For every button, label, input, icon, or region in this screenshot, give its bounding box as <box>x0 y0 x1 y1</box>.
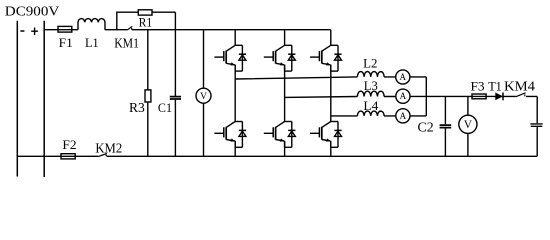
svg-text:R3: R3 <box>129 100 145 115</box>
wire voltmeter V1 branch bottom <box>203 103 205 156</box>
svg-text:C1: C1 <box>158 100 172 115</box>
resistor R3 <box>145 90 151 102</box>
capacitor C2 <box>440 125 452 128</box>
ammeter A2 <box>396 89 410 103</box>
wire load branch bottom <box>536 127 538 156</box>
svg-text:T1: T1 <box>488 79 502 94</box>
wire load branch top <box>536 96 538 123</box>
contactor KM2 blade <box>98 154 107 157</box>
svg-text:C2: C2 <box>418 120 434 135</box>
wire top positive rail <box>44 29 331 31</box>
ammeter A1 <box>396 70 410 84</box>
wire R3 branch top <box>147 30 149 90</box>
svg-text:F2: F2 <box>62 137 76 152</box>
wire bottom negative rail <box>17 155 537 157</box>
ammeter A3 <box>396 109 410 123</box>
svg-text:A: A <box>400 91 407 101</box>
wire R1 bypass branch <box>117 12 176 30</box>
wire phase joining bus <box>425 77 427 116</box>
battery load <box>530 124 542 126</box>
svg-text:L1: L1 <box>85 35 99 50</box>
DC bus positive vertical wire <box>43 21 45 177</box>
IGBT Q2 top leg2 with freewheel diode <box>264 45 296 71</box>
diode T1 <box>495 93 503 101</box>
wire phase1 output <box>235 77 426 79</box>
wire C2 branch bottom <box>444 128 446 156</box>
wire C1 branch top <box>174 12 176 96</box>
resistor R1 <box>138 10 152 15</box>
svg-text:A: A <box>400 72 407 82</box>
fuse F3 <box>472 94 486 99</box>
IGBT Q3 top leg3 with freewheel diode <box>310 45 342 71</box>
capacitor C1 <box>170 97 181 99</box>
wire voltmeter V2 branch top <box>467 96 469 115</box>
contactor KM4 blade <box>516 93 526 97</box>
DC bus negative vertical wire <box>16 21 18 177</box>
inductor L4 <box>357 111 384 116</box>
wire voltmeter V1 branch top <box>203 30 205 88</box>
svg-text:R1: R1 <box>139 16 153 30</box>
svg-text:V: V <box>464 119 473 131</box>
svg-text:KM2: KM2 <box>95 141 122 156</box>
svg-text:KM4: KM4 <box>504 79 535 94</box>
wire C1 branch bottom <box>174 100 176 157</box>
IGBT Q6 bottom leg3 with freewheel diode <box>310 122 342 148</box>
inductor L3 <box>357 91 384 96</box>
svg-text:A: A <box>400 111 407 121</box>
inductor L1 <box>78 19 105 30</box>
svg-text:L2: L2 <box>363 56 377 71</box>
svg-text:F3: F3 <box>471 79 485 94</box>
wire phase3 output <box>331 115 427 117</box>
wire R3 branch bottom <box>147 102 149 156</box>
svg-text:V: V <box>200 91 207 102</box>
IGBT Q5 bottom leg2 with freewheel diode <box>264 122 296 148</box>
wire leg3 vertical <box>330 30 332 157</box>
IGBT Q4 bottom leg1 with freewheel diode <box>214 122 246 148</box>
inductor L2 <box>357 72 384 77</box>
svg-text:L4: L4 <box>363 98 379 113</box>
voltmeter V2 <box>459 115 477 133</box>
terminal polarity labels - + <box>20 28 38 36</box>
IGBT Q1 top leg1 with freewheel diode <box>214 45 246 71</box>
fuse F1 <box>58 26 72 32</box>
svg-text:L3: L3 <box>364 78 378 93</box>
svg-text:KM1: KM1 <box>114 36 139 51</box>
svg-text:F1: F1 <box>59 35 73 50</box>
contactor KM1 blade <box>127 26 132 30</box>
wire C2 branch top <box>444 96 446 124</box>
wire leg1 vertical <box>234 30 236 157</box>
wire leg2 vertical <box>284 30 286 157</box>
fuse F2 <box>61 154 75 159</box>
svg-text:DC900V: DC900V <box>5 4 60 19</box>
wire voltmeter V2 branch bottom <box>467 133 469 156</box>
voltmeter V1 <box>196 88 211 103</box>
wire phase2 output <box>285 96 538 97</box>
